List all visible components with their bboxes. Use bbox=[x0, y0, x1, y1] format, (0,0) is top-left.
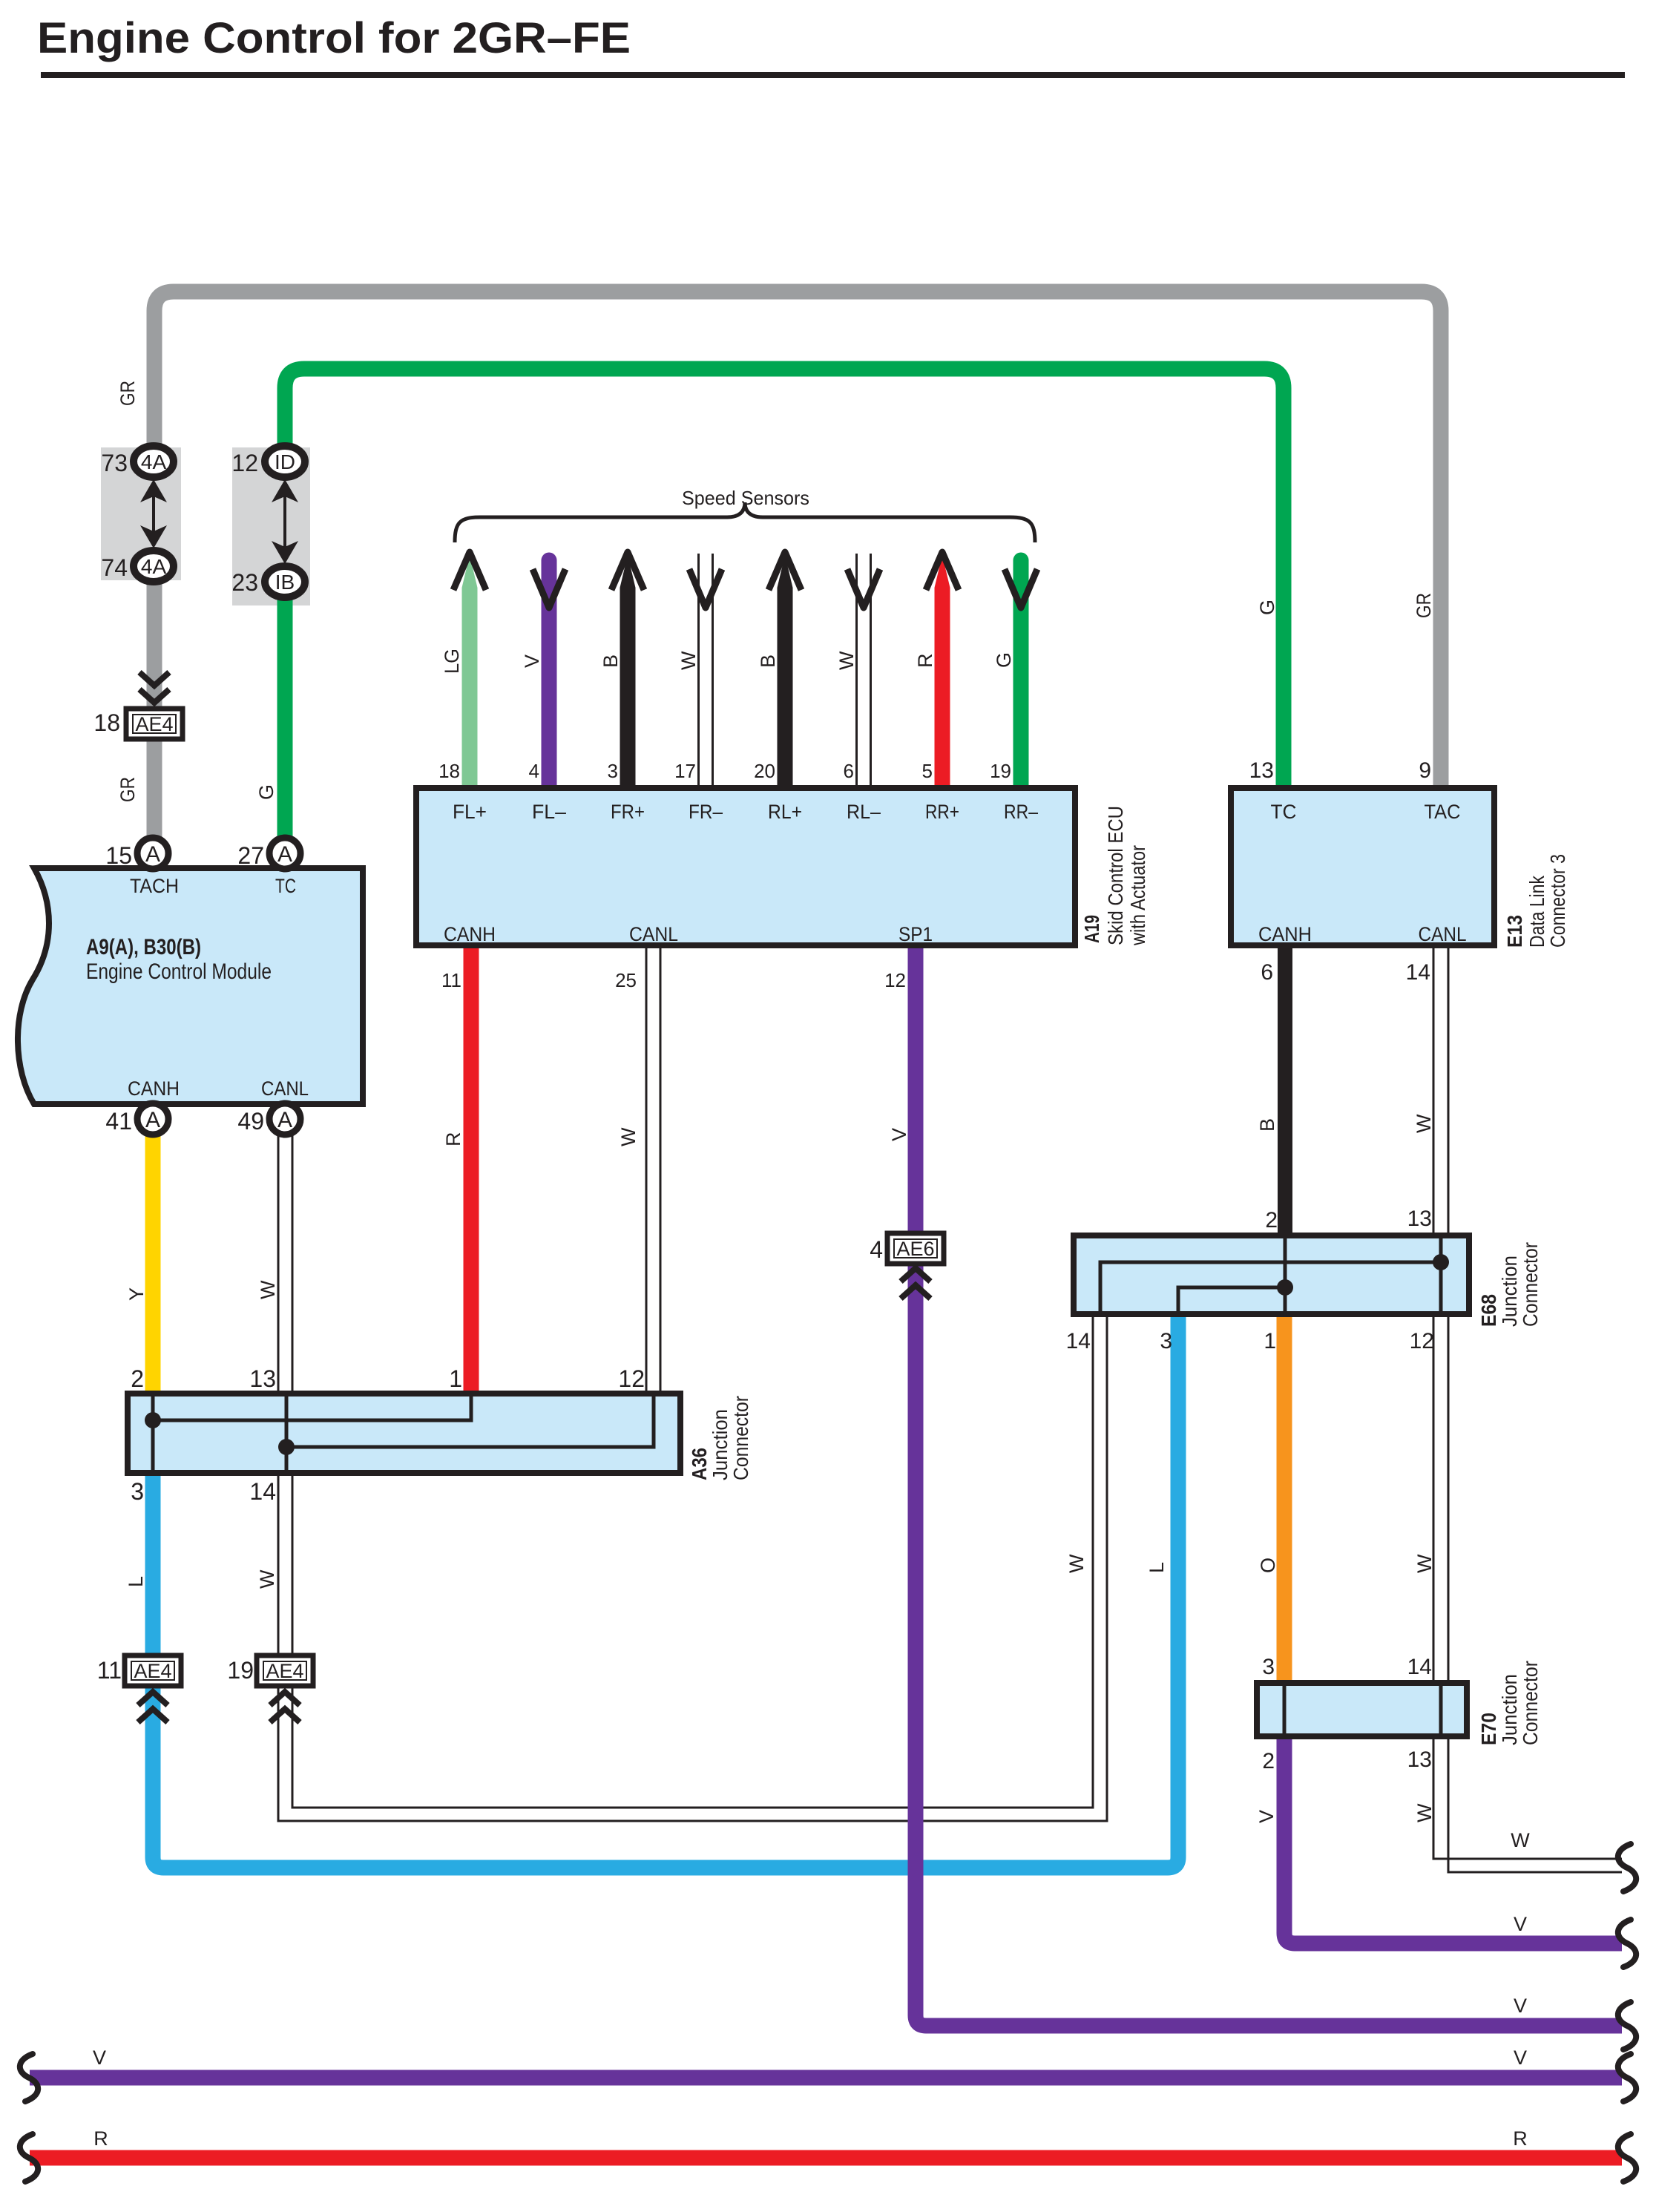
svg-text:12: 12 bbox=[231, 450, 258, 476]
wire break squiggle R at (2190,2908) bbox=[1618, 2134, 1636, 2182]
svg-text:A19: A19 bbox=[1080, 915, 1103, 943]
svg-text:13: 13 bbox=[1407, 1207, 1432, 1231]
svg-text:E13: E13 bbox=[1503, 915, 1526, 948]
speed sensor wire V at x=740 (down arrow) bbox=[542, 560, 557, 788]
A36 internal link to pin12 bbox=[286, 1394, 654, 1447]
A19 Skid Control ECU block bbox=[416, 788, 1075, 945]
wire O E68 pin 1 to E70 pin 3 bbox=[1277, 1314, 1292, 1683]
svg-text:A36: A36 bbox=[688, 1448, 711, 1480]
svg-text:41: 41 bbox=[105, 1108, 132, 1135]
connector AE4 pin 18 chevrons bbox=[139, 672, 169, 686]
svg-text:12: 12 bbox=[884, 969, 906, 991]
svg-text:Connector: Connector bbox=[1519, 1661, 1542, 1745]
wire R full width bottom bbox=[30, 2150, 1622, 2166]
svg-text:13: 13 bbox=[1249, 758, 1274, 783]
svg-text:1: 1 bbox=[449, 1365, 462, 1392]
speed sensor wire W at x=951 (down arrow) bbox=[697, 554, 700, 788]
svg-text:13: 13 bbox=[249, 1365, 276, 1392]
ECM pin circle A (49) bbox=[269, 1103, 300, 1135]
svg-text:11: 11 bbox=[441, 969, 461, 991]
svg-text:Engine Control Module: Engine Control Module bbox=[86, 959, 272, 984]
connector AE4 pin 19 chevrons bbox=[270, 1692, 300, 1705]
wire break squiggle V at (2190,2619) bbox=[1618, 1920, 1636, 1967]
svg-text:E68: E68 bbox=[1477, 1294, 1500, 1327]
svg-text:RR+: RR+ bbox=[925, 801, 959, 823]
title rule bbox=[41, 72, 1625, 78]
wire L A36 pin 3 down right and up to E68 pin 3 bbox=[153, 1314, 1178, 1868]
svg-text:R: R bbox=[1513, 2127, 1528, 2150]
speed sensors brace bbox=[455, 502, 1035, 542]
svg-text:V: V bbox=[93, 2047, 106, 2069]
svg-text:G: G bbox=[1256, 600, 1278, 615]
connector AE4 pin 18 box bbox=[126, 709, 183, 739]
svg-text:CANH: CANH bbox=[444, 923, 496, 945]
svg-text:O: O bbox=[1257, 1558, 1279, 1573]
svg-text:12: 12 bbox=[1410, 1329, 1434, 1353]
wire GR from 74(4A) down through AE4 to ECM TACH 15 bbox=[147, 566, 162, 853]
wire V A19 SP1 12 down through AE6 and right to edge break bbox=[916, 945, 1622, 2026]
svg-text:A: A bbox=[145, 1108, 160, 1132]
A36 internal link pin13-pin14 bbox=[285, 1394, 289, 1473]
double arrow between 73(4A) and 74(4A) bbox=[152, 485, 155, 543]
svg-text:15: 15 bbox=[105, 842, 132, 869]
svg-text:TC: TC bbox=[275, 875, 296, 897]
svg-text:AE4: AE4 bbox=[134, 1660, 171, 1682]
svg-text:V: V bbox=[1514, 2047, 1527, 2069]
svg-text:2: 2 bbox=[131, 1365, 144, 1392]
A36 internal junction dot bbox=[145, 1412, 161, 1428]
svg-text:TC: TC bbox=[1271, 801, 1297, 823]
svg-text:FL–: FL– bbox=[532, 801, 566, 823]
wire break squiggle V at (36,2800) bbox=[20, 2054, 38, 2101]
svg-text:A: A bbox=[277, 842, 292, 867]
ECM pin circle A (15) bbox=[137, 838, 168, 869]
svg-text:Connector: Connector bbox=[1519, 1242, 1542, 1327]
svg-text:FR–: FR– bbox=[689, 801, 723, 823]
E68 Junction Connector block bbox=[1074, 1235, 1469, 1314]
ECM pin circle A (27) bbox=[269, 838, 300, 869]
speed sensor wire B at x=846 (up arrow) bbox=[620, 588, 636, 788]
svg-text:9: 9 bbox=[1419, 758, 1431, 783]
svg-text:V: V bbox=[521, 654, 543, 668]
svg-text:6: 6 bbox=[844, 760, 854, 782]
svg-text:1: 1 bbox=[1264, 1329, 1276, 1353]
wire GR from 73(4A) up across top to DLC3 TAC 9 bbox=[154, 292, 1441, 788]
oval connector ID at (384,622) bbox=[265, 446, 305, 477]
svg-text:CANH: CANH bbox=[1258, 923, 1312, 945]
wire W ECM CANL 49 to A36 pin 13 bbox=[277, 1119, 280, 1394]
svg-text:RL–: RL– bbox=[847, 801, 881, 823]
svg-text:G: G bbox=[255, 784, 277, 800]
wire G from 23(IB) down to ECM TC 27 bbox=[277, 582, 293, 853]
svg-text:W: W bbox=[257, 1280, 279, 1299]
svg-text:Junction: Junction bbox=[1498, 1256, 1521, 1327]
wire V full width bottom bbox=[30, 2070, 1622, 2086]
svg-text:4A: 4A bbox=[141, 450, 167, 473]
svg-text:14: 14 bbox=[1406, 960, 1430, 985]
connector AE6 pin 4 chevrons bbox=[901, 1268, 930, 1281]
A36 internal junction dot 2 bbox=[278, 1439, 295, 1455]
ECM block A9(A),B30(B) Engine Control Module bbox=[18, 868, 363, 1104]
wire W A19 CANL 25 to A36 pin 12 bbox=[645, 945, 648, 1394]
svg-text:4: 4 bbox=[870, 1236, 883, 1263]
svg-text:3: 3 bbox=[608, 760, 618, 782]
svg-text:W: W bbox=[1511, 1829, 1530, 1851]
connector AE4 pin 11 chevrons bbox=[138, 1692, 168, 1705]
svg-text:17: 17 bbox=[674, 760, 696, 782]
svg-text:R: R bbox=[93, 2127, 108, 2150]
svg-text:14: 14 bbox=[1066, 1329, 1091, 1353]
svg-text:TACH: TACH bbox=[130, 875, 179, 897]
speed sensor wire LG at x=633 (up arrow) bbox=[462, 588, 478, 788]
svg-text:RR–: RR– bbox=[1004, 801, 1038, 823]
svg-text:TAC: TAC bbox=[1425, 801, 1461, 823]
connector AE4 pin 19 box bbox=[257, 1655, 313, 1686]
wire W E68 pin 12 to E70 pin 14 bbox=[1433, 1314, 1435, 1683]
E13 Data Link Connector 3 block bbox=[1231, 788, 1494, 945]
oval connector IB at (384,784) bbox=[265, 566, 305, 597]
svg-text:GR: GR bbox=[116, 777, 139, 802]
svg-text:IB: IB bbox=[275, 571, 295, 594]
wire B DLC3 CANH 6 to E68 pin 2 bbox=[1278, 945, 1292, 1235]
speed sensor wire B at x=1058 (up arrow) bbox=[778, 588, 793, 788]
svg-text:W: W bbox=[677, 651, 700, 670]
svg-text:4A: 4A bbox=[141, 555, 167, 578]
svg-text:CANH: CANH bbox=[128, 1077, 180, 1100]
svg-text:E70: E70 bbox=[1477, 1713, 1500, 1745]
wire V E70 pin 2 down and right to edge break bbox=[1284, 1736, 1622, 1943]
svg-text:3: 3 bbox=[1160, 1329, 1172, 1353]
svg-text:G: G bbox=[993, 652, 1015, 668]
svg-text:Data Link: Data Link bbox=[1525, 875, 1548, 948]
connector housing 12/23 ID-IB gray box bbox=[232, 447, 310, 605]
wire break squiggle W at (2190,2517) bbox=[1618, 1844, 1636, 1891]
svg-text:23: 23 bbox=[231, 569, 258, 596]
svg-text:CANL: CANL bbox=[1419, 923, 1467, 945]
svg-text:6: 6 bbox=[1261, 960, 1273, 985]
E68 internal junction dot 2 bbox=[1277, 1279, 1293, 1296]
svg-text:R: R bbox=[442, 1132, 464, 1147]
ECM pin circle A (41) bbox=[137, 1103, 168, 1135]
wire break squiggle R at (36,2908) bbox=[20, 2134, 38, 2182]
svg-text:L: L bbox=[1146, 1562, 1168, 1573]
wire W DLC3 CANL 14 to E68 pin 13 bbox=[1433, 945, 1435, 1235]
svg-text:2: 2 bbox=[1262, 1749, 1275, 1773]
svg-text:Junction: Junction bbox=[1498, 1674, 1521, 1745]
svg-text:L: L bbox=[125, 1576, 147, 1587]
svg-text:W: W bbox=[1413, 1803, 1436, 1822]
E68 internal link pin14 bbox=[1100, 1262, 1441, 1314]
svg-text:Skid Control ECU: Skid Control ECU bbox=[1104, 806, 1127, 945]
wire W A36 pin 14 down right and up to E68 pin 14 bbox=[278, 1314, 1107, 1821]
svg-text:W: W bbox=[256, 1569, 278, 1589]
svg-text:18: 18 bbox=[93, 709, 120, 736]
E68 internal link pin13-pin12 bbox=[1439, 1235, 1443, 1314]
wire G from 12(ID) up across to DLC3 TC 13 bbox=[285, 369, 1284, 788]
svg-text:R: R bbox=[914, 654, 936, 669]
svg-text:W: W bbox=[1413, 1114, 1435, 1133]
svg-text:14: 14 bbox=[249, 1478, 276, 1505]
E70 internal link pin3-pin2 bbox=[1283, 1683, 1287, 1736]
svg-text:RL+: RL+ bbox=[768, 801, 802, 823]
svg-text:Y: Y bbox=[125, 1287, 148, 1301]
svg-text:Junction: Junction bbox=[709, 1409, 732, 1480]
svg-text:11: 11 bbox=[97, 1657, 122, 1684]
svg-text:19: 19 bbox=[990, 760, 1011, 782]
svg-text:GR: GR bbox=[1413, 593, 1435, 618]
E68 internal link pin2-pin1 bbox=[1284, 1235, 1287, 1314]
oval connector 4A at (207,622) bbox=[134, 446, 174, 477]
wire W E70 pin 13 down and right to edge break bbox=[1448, 1736, 1622, 1872]
E70 Junction Connector block bbox=[1257, 1683, 1467, 1736]
svg-text:3: 3 bbox=[131, 1478, 144, 1505]
svg-text:2: 2 bbox=[1265, 1208, 1278, 1233]
svg-text:20: 20 bbox=[754, 760, 775, 782]
wire Y ECM CANH 41 to A36 pin 2 bbox=[145, 1119, 161, 1394]
svg-text:19: 19 bbox=[227, 1657, 254, 1684]
svg-text:FL+: FL+ bbox=[453, 801, 487, 823]
svg-text:V: V bbox=[1514, 1913, 1527, 1935]
A36 internal link pin2-pin3 bbox=[151, 1394, 155, 1473]
svg-text:5: 5 bbox=[922, 760, 933, 782]
svg-text:B: B bbox=[1256, 1118, 1278, 1132]
wire R A19 CANH 11 to A36 pin 1 bbox=[464, 945, 479, 1394]
svg-text:Connector 3: Connector 3 bbox=[1546, 854, 1569, 948]
svg-text:74: 74 bbox=[101, 554, 128, 581]
svg-text:AE4: AE4 bbox=[266, 1660, 303, 1682]
E70 internal link pin14-pin13 bbox=[1439, 1683, 1443, 1736]
svg-text:3: 3 bbox=[1262, 1655, 1275, 1679]
svg-text:ID: ID bbox=[275, 450, 295, 473]
svg-text:B: B bbox=[599, 654, 622, 668]
svg-text:14: 14 bbox=[1407, 1655, 1432, 1679]
svg-text:A: A bbox=[145, 842, 160, 867]
svg-text:W: W bbox=[1413, 1554, 1436, 1573]
connector AE4 pin 11 box bbox=[125, 1655, 181, 1686]
svg-text:A9(A), B30(B): A9(A), B30(B) bbox=[86, 935, 201, 959]
double arrow between 12(ID) and 23(IB) bbox=[283, 485, 286, 559]
svg-text:4: 4 bbox=[529, 760, 539, 782]
svg-text:W: W bbox=[1065, 1554, 1088, 1573]
speed sensor wire G at x=1376 (down arrow) bbox=[1013, 560, 1029, 788]
svg-text:13: 13 bbox=[1407, 1747, 1432, 1772]
svg-text:V: V bbox=[1255, 1810, 1278, 1823]
svg-text:27: 27 bbox=[237, 842, 264, 869]
speed sensor wire W at x=1164 (down arrow) bbox=[855, 554, 858, 788]
svg-text:with Actuator: with Actuator bbox=[1126, 845, 1149, 946]
svg-text:25: 25 bbox=[615, 969, 637, 991]
svg-text:SP1: SP1 bbox=[898, 923, 933, 945]
svg-text:B: B bbox=[757, 654, 779, 668]
E68 internal junction dot bbox=[1433, 1254, 1449, 1270]
svg-text:LG: LG bbox=[441, 649, 463, 674]
svg-text:18: 18 bbox=[438, 760, 460, 782]
svg-text:W: W bbox=[835, 651, 858, 670]
svg-text:V: V bbox=[888, 1128, 910, 1141]
svg-text:V: V bbox=[1514, 1995, 1527, 2017]
svg-text:CANL: CANL bbox=[261, 1077, 309, 1100]
A36 internal link to pin1 bbox=[153, 1394, 471, 1420]
svg-text:49: 49 bbox=[237, 1108, 264, 1135]
oval connector 4A at (207,763) bbox=[134, 551, 174, 582]
speed sensor wire R at x=1270 (up arrow) bbox=[935, 588, 950, 788]
svg-text:AE4: AE4 bbox=[135, 713, 173, 735]
A36 Junction Connector block bbox=[128, 1394, 680, 1473]
connector housing 73/74 4A gray box bbox=[101, 447, 181, 580]
svg-text:73: 73 bbox=[101, 450, 128, 476]
svg-text:12: 12 bbox=[618, 1365, 645, 1392]
wire break squiggle V at (2190,2730) bbox=[1618, 2002, 1636, 2049]
connector AE6 pin 4 box bbox=[887, 1233, 944, 1264]
wire break squiggle V at (2190,2800) bbox=[1618, 2054, 1636, 2101]
svg-text:A: A bbox=[277, 1108, 292, 1132]
svg-text:AE6: AE6 bbox=[896, 1238, 934, 1260]
svg-text:CANL: CANL bbox=[629, 923, 678, 945]
svg-text:GR: GR bbox=[116, 381, 139, 406]
svg-text:Engine Control for 2GR–FE: Engine Control for 2GR–FE bbox=[37, 14, 631, 62]
svg-text:Connector: Connector bbox=[729, 1396, 752, 1480]
E68 internal link pin3 bbox=[1178, 1287, 1285, 1314]
svg-text:W: W bbox=[617, 1127, 640, 1146]
svg-text:FR+: FR+ bbox=[611, 801, 645, 823]
